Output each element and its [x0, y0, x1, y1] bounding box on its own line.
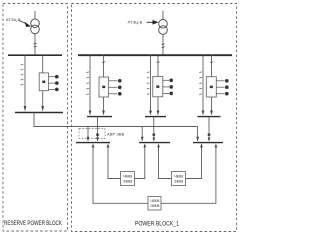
arrow s1 boxline	[102, 111, 105, 116]
arrow feeder B	[41, 106, 44, 112]
busbar s3 upper	[198, 116, 221, 118]
svg-text:RESERVE POWER BLOCK: RESERVE POWER BLOCK	[4, 220, 62, 227]
device box s1	[99, 77, 109, 97]
svg-text:ЧВВ: ЧВВ	[123, 174, 133, 178]
wire abp drop 1	[87, 127, 89, 138]
taps s3	[216, 81, 224, 94]
arrow up drop s1b	[107, 143, 110, 147]
wire s2 tickline	[150, 55, 152, 112]
device box s3	[206, 77, 216, 97]
arrow up box1 riser	[143, 143, 146, 147]
wire s2 link	[153, 117, 155, 138]
arrow up box2 riser	[200, 143, 203, 147]
breaker mark abp drop2	[96, 134, 99, 136]
svg-text:АТЭЦ-В: АТЭЦ-В	[6, 18, 21, 22]
device mark s2	[156, 86, 159, 88]
device box left block	[39, 73, 48, 91]
busbar reserve block 0.4kV	[15, 112, 63, 114]
wire s3 boxline upper	[211, 55, 213, 76]
busbar s1 lower	[76, 142, 110, 144]
arrow abp drop 2	[96, 137, 99, 141]
power block 1 dashed border	[72, 4, 237, 232]
wire T2 HV lead	[162, 11, 164, 20]
busbar s1 upper	[87, 116, 112, 118]
arrow to transformer T1	[19, 21, 31, 27]
transformer T1	[31, 19, 40, 34]
wire T1 HV lead	[34, 11, 36, 19]
feeder ticks left	[21, 64, 24, 85]
switch tick on T1 lead	[34, 43, 37, 47]
arrow s3 tickline	[202, 111, 205, 116]
svg-text:ЗВВ: ЗВВ	[150, 204, 160, 208]
arrow s3 boxline	[210, 111, 213, 116]
dots s1	[118, 79, 122, 96]
arrow s3 link	[208, 138, 211, 142]
transformer T2	[159, 20, 168, 35]
wire drop s2b to box2	[159, 147, 172, 179]
dots s2	[169, 79, 173, 96]
arrow s2 link	[152, 138, 155, 142]
busbar s2 lower	[139, 142, 170, 144]
box1 text	[123, 174, 133, 183]
arrow to transformer T2	[147, 20, 159, 25]
arrow up drop s2b	[157, 143, 160, 147]
svg-text:ЗВВ: ЗВВ	[174, 180, 184, 184]
tick on s3 boxline	[210, 61, 213, 64]
wire box1 to s2	[135, 147, 145, 179]
device mark	[42, 81, 45, 83]
wire T1 LV lead	[34, 34, 36, 55]
tick on s1 boxline	[102, 61, 105, 64]
breaker mark s3 link	[208, 134, 211, 136]
taps to dots	[48, 77, 55, 90]
taps s2	[163, 80, 169, 93]
svg-text:ЗВВ: ЗВВ	[123, 180, 133, 184]
breaker mark s2 link	[153, 134, 156, 136]
arrow up drop s1a	[92, 143, 95, 147]
svg-text:POWER BLOCK_1: POWER BLOCK_1	[135, 221, 179, 228]
svg-text:ЧВВ: ЧВВ	[150, 199, 160, 203]
wire drop s1a to box3	[93, 147, 148, 204]
dots s3	[225, 79, 229, 95]
wire box2 to s3	[186, 147, 202, 179]
reserve power block dashed border	[3, 4, 68, 232]
switch tick on T2 lead	[162, 44, 165, 48]
wire s2 boxline upper	[157, 55, 159, 76]
busbar reserve block 6kV	[8, 54, 62, 56]
wire s3 tickline	[202, 55, 204, 112]
wire s3 tie drop (end of long tie)	[197, 127, 199, 138]
transfer box 1	[121, 172, 135, 186]
tick on s2 boxline	[157, 61, 160, 64]
arrow s2 boxline	[157, 111, 160, 116]
arrow abp drop 1	[87, 137, 90, 142]
busbar s2 upper	[145, 116, 166, 118]
feeder ticks s1	[86, 72, 89, 95]
arrow feeder A	[24, 106, 27, 112]
transfer box 2	[172, 172, 186, 186]
wire s1 boxline lower	[103, 97, 105, 112]
svg-text:ЧВВ: ЧВВ	[174, 174, 184, 178]
arrow s2 tie drop	[141, 137, 144, 142]
arrow s3 tie drop	[196, 137, 199, 142]
arrow s2 tickline	[149, 111, 152, 116]
svg-text:ЛТЭЦ-В: ЛТЭЦ-В	[128, 20, 143, 24]
busbar power block 6kV main	[78, 54, 232, 56]
ABP dashed enclosure	[79, 129, 105, 139]
svg-text:АВР 3ВВ: АВР 3ВВ	[107, 132, 125, 137]
device box s2	[153, 77, 163, 97]
wire tie from reserve busbar	[34, 113, 198, 127]
wire feeder A	[24, 55, 26, 108]
dots left block	[55, 75, 59, 91]
wire T2 LV lead	[162, 34, 164, 55]
box2 text	[174, 174, 184, 183]
busbar s3 lower	[193, 142, 223, 144]
device mark s3	[210, 86, 213, 88]
wire s3 link	[208, 117, 210, 138]
arrow s1 tickline	[89, 111, 92, 116]
transfer box 3	[148, 197, 161, 211]
taps s1	[109, 81, 118, 94]
feeder ticks s2	[147, 72, 150, 95]
wire drop s1b to box1	[108, 147, 121, 179]
box3 text	[150, 199, 160, 208]
wire s2 boxline lower	[157, 97, 159, 112]
feeder ticks s3	[199, 72, 202, 95]
wire s3 boxline lower	[211, 97, 213, 112]
wire s2 tie drop	[141, 127, 143, 138]
arrow up drop s3b	[215, 143, 218, 147]
wire feeder B upper	[42, 55, 44, 73]
wire feeder B lower	[42, 91, 44, 108]
wire s1 tickline	[89, 55, 91, 112]
wire s1 boxline upper	[103, 55, 105, 77]
device mark s1	[102, 86, 105, 88]
wire drop s3b to box3	[161, 147, 216, 204]
wire abp drop 2	[97, 117, 99, 138]
